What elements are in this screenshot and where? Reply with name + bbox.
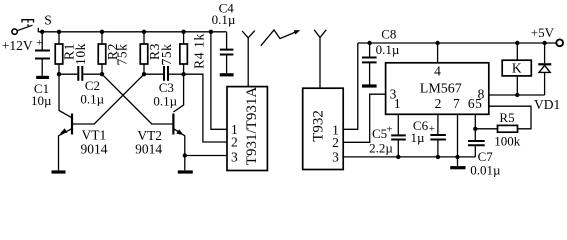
- svg-text:9014: 9014: [81, 141, 108, 156]
- svg-text:R5: R5: [499, 110, 514, 125]
- svg-text:5: 5: [475, 96, 482, 111]
- svg-text:9014: 9014: [135, 142, 162, 157]
- svg-text:T932: T932: [311, 110, 327, 142]
- svg-text:R4 1k: R4 1k: [192, 33, 207, 69]
- svg-text:K: K: [512, 60, 522, 75]
- svg-text:2.2µ: 2.2µ: [369, 140, 393, 155]
- svg-text:+: +: [429, 123, 435, 135]
- svg-text:2: 2: [435, 96, 442, 111]
- svg-text:0.1µ: 0.1µ: [153, 93, 177, 108]
- svg-text:T931/T931A: T931/T931A: [244, 87, 260, 165]
- svg-text:C5: C5: [372, 126, 387, 141]
- svg-text:3: 3: [332, 150, 339, 165]
- svg-text:VD1: VD1: [534, 97, 560, 112]
- svg-text:1: 1: [394, 96, 401, 111]
- svg-text:75k: 75k: [159, 43, 174, 65]
- svg-text:10µ: 10µ: [31, 93, 52, 108]
- svg-text:LM567: LM567: [420, 82, 462, 97]
- svg-text:2: 2: [332, 135, 339, 150]
- svg-text:+: +: [36, 37, 42, 49]
- svg-text:75k: 75k: [115, 43, 130, 65]
- svg-text:10k: 10k: [73, 43, 88, 65]
- svg-text:0.1µ: 0.1µ: [376, 42, 400, 57]
- svg-text:0.01µ: 0.01µ: [470, 162, 501, 177]
- svg-text:100k: 100k: [494, 133, 521, 148]
- svg-text:1µ: 1µ: [411, 130, 426, 145]
- svg-text:4: 4: [434, 64, 441, 79]
- svg-text:6: 6: [468, 96, 475, 111]
- svg-text:+5V: +5V: [531, 25, 555, 40]
- svg-text:+: +: [386, 123, 392, 135]
- svg-text:+12V: +12V: [2, 38, 33, 53]
- svg-text:2: 2: [231, 135, 238, 150]
- svg-text:3: 3: [231, 150, 238, 165]
- svg-text:0.1µ: 0.1µ: [80, 92, 104, 107]
- svg-text:C8: C8: [381, 27, 396, 42]
- svg-text:7: 7: [453, 96, 460, 111]
- svg-text:S: S: [44, 12, 52, 27]
- svg-text:0.1µ: 0.1µ: [212, 12, 236, 27]
